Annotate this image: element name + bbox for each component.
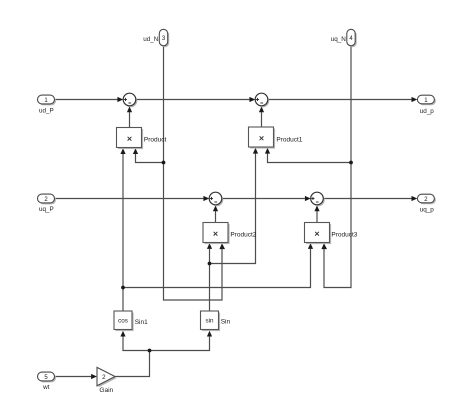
inport 2 uq_P xyxy=(38,194,57,213)
inport 1 ud_P xyxy=(38,95,57,114)
svg-text:2: 2 xyxy=(102,374,106,381)
wire: Sum3 to Sum4 xyxy=(222,196,311,201)
junction node: sin output dot xyxy=(208,262,212,266)
sum block Sum1 xyxy=(123,93,137,107)
wire: sin branch right and up to Product1 left input xyxy=(210,148,259,264)
svg-text:Gain: Gain xyxy=(99,387,113,394)
outport 1 ud_p xyxy=(417,95,436,115)
junction node: uq_N branch dot xyxy=(349,161,353,165)
svg-text:ud_P: ud_P xyxy=(39,107,54,114)
svg-text:uq_P: uq_P xyxy=(39,206,54,213)
inport 5 wt xyxy=(38,372,57,391)
wire: Product2 output up to Sum3 xyxy=(213,205,218,222)
inport 4 uq_N xyxy=(331,29,357,47)
svg-text:Sin: Sin xyxy=(221,318,231,325)
svg-text:Product2: Product2 xyxy=(230,231,256,238)
svg-text:Product1: Product1 xyxy=(276,136,302,143)
trig block Sin1 (cos) xyxy=(114,311,148,331)
wire: Product1 output up to Sum2 xyxy=(259,106,264,127)
wire: cos branch right to Product3 left input xyxy=(123,243,313,287)
wire: uq_N branch to Product1 right input xyxy=(265,148,351,163)
junction node: gain feed dot xyxy=(148,349,152,353)
wire: inport4 uq_N down, left along y=287.5, up into Product3 right input xyxy=(321,46,351,288)
inport 3 ud_N xyxy=(143,29,169,47)
product block Product xyxy=(117,128,167,150)
junction node: cos output dot xyxy=(121,286,125,290)
trig block Sin (sin) xyxy=(201,311,231,331)
wire: Product output up to Sum1 xyxy=(127,106,132,127)
sum block Sum2 xyxy=(255,93,269,107)
wire: inport2 uq_P to Sum3 xyxy=(55,196,210,201)
product block Product1 xyxy=(249,127,303,149)
svg-text:cos: cos xyxy=(118,318,128,325)
product block Product2 xyxy=(203,223,257,245)
svg-text:Product: Product xyxy=(144,137,167,144)
wire: Product3 output up to Sum4 xyxy=(314,205,319,222)
wire: inport5 wt to Gain xyxy=(55,374,97,379)
svg-text:Sin1: Sin1 xyxy=(135,319,148,326)
wire: ud_N branch to Product right input xyxy=(133,148,164,162)
svg-text:uq_p: uq_p xyxy=(420,206,435,213)
svg-text:Product3: Product3 xyxy=(331,232,357,239)
product block Product3 xyxy=(305,223,358,245)
svg-text:uq_N: uq_N xyxy=(331,36,347,43)
svg-text:ud_p: ud_p xyxy=(420,108,435,115)
sum block Sum3 xyxy=(209,192,223,206)
svg-text:ud_N: ud_N xyxy=(143,36,159,43)
wire: Sum2 to outport1 xyxy=(268,97,418,102)
wire: inport1 ud_P to Sum1 xyxy=(55,97,124,102)
wire: sin output up to Product2 left input xyxy=(207,243,212,311)
wire: Gain output right and up to trig feed line xyxy=(115,351,150,377)
wire: inport3 ud_N down, right along y=299.5, up into Product2 right input xyxy=(164,46,226,300)
wire: cos output up to Product left input xyxy=(120,148,125,311)
gain block Gain xyxy=(97,367,117,394)
wire: Sum1 to Sum2 xyxy=(136,97,255,102)
svg-text:wt: wt xyxy=(42,384,50,391)
svg-text:sin: sin xyxy=(205,318,214,325)
wire: Sum4 to outport2 xyxy=(323,196,417,201)
sum block Sum4 xyxy=(311,192,325,206)
junction node: ud_N branch dot xyxy=(162,161,166,165)
outport 2 uq_p xyxy=(417,194,436,213)
wire: trig feed line into cos and sin bottoms xyxy=(120,331,212,351)
